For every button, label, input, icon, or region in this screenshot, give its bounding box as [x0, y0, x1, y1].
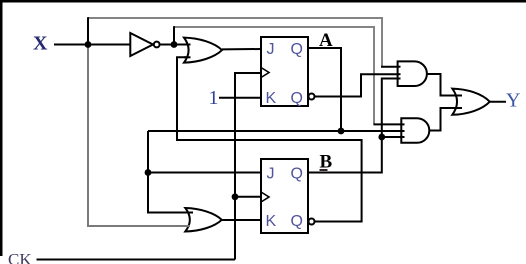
svg-text:Q: Q [291, 41, 303, 58]
svg-text:Q: Q [291, 213, 303, 230]
svg-text:Y: Y [506, 90, 520, 112]
svg-text:A: A [319, 30, 333, 51]
svg-text:Q: Q [291, 90, 303, 107]
svg-text:Q: Q [291, 165, 303, 182]
svg-text:K: K [266, 90, 277, 107]
svg-text:J: J [267, 165, 275, 182]
svg-text:1: 1 [209, 87, 219, 109]
svg-text:X: X [33, 33, 48, 55]
svg-text:CK: CK [8, 250, 32, 264]
svg-text:J: J [267, 41, 275, 58]
svg-text:K: K [266, 213, 277, 230]
